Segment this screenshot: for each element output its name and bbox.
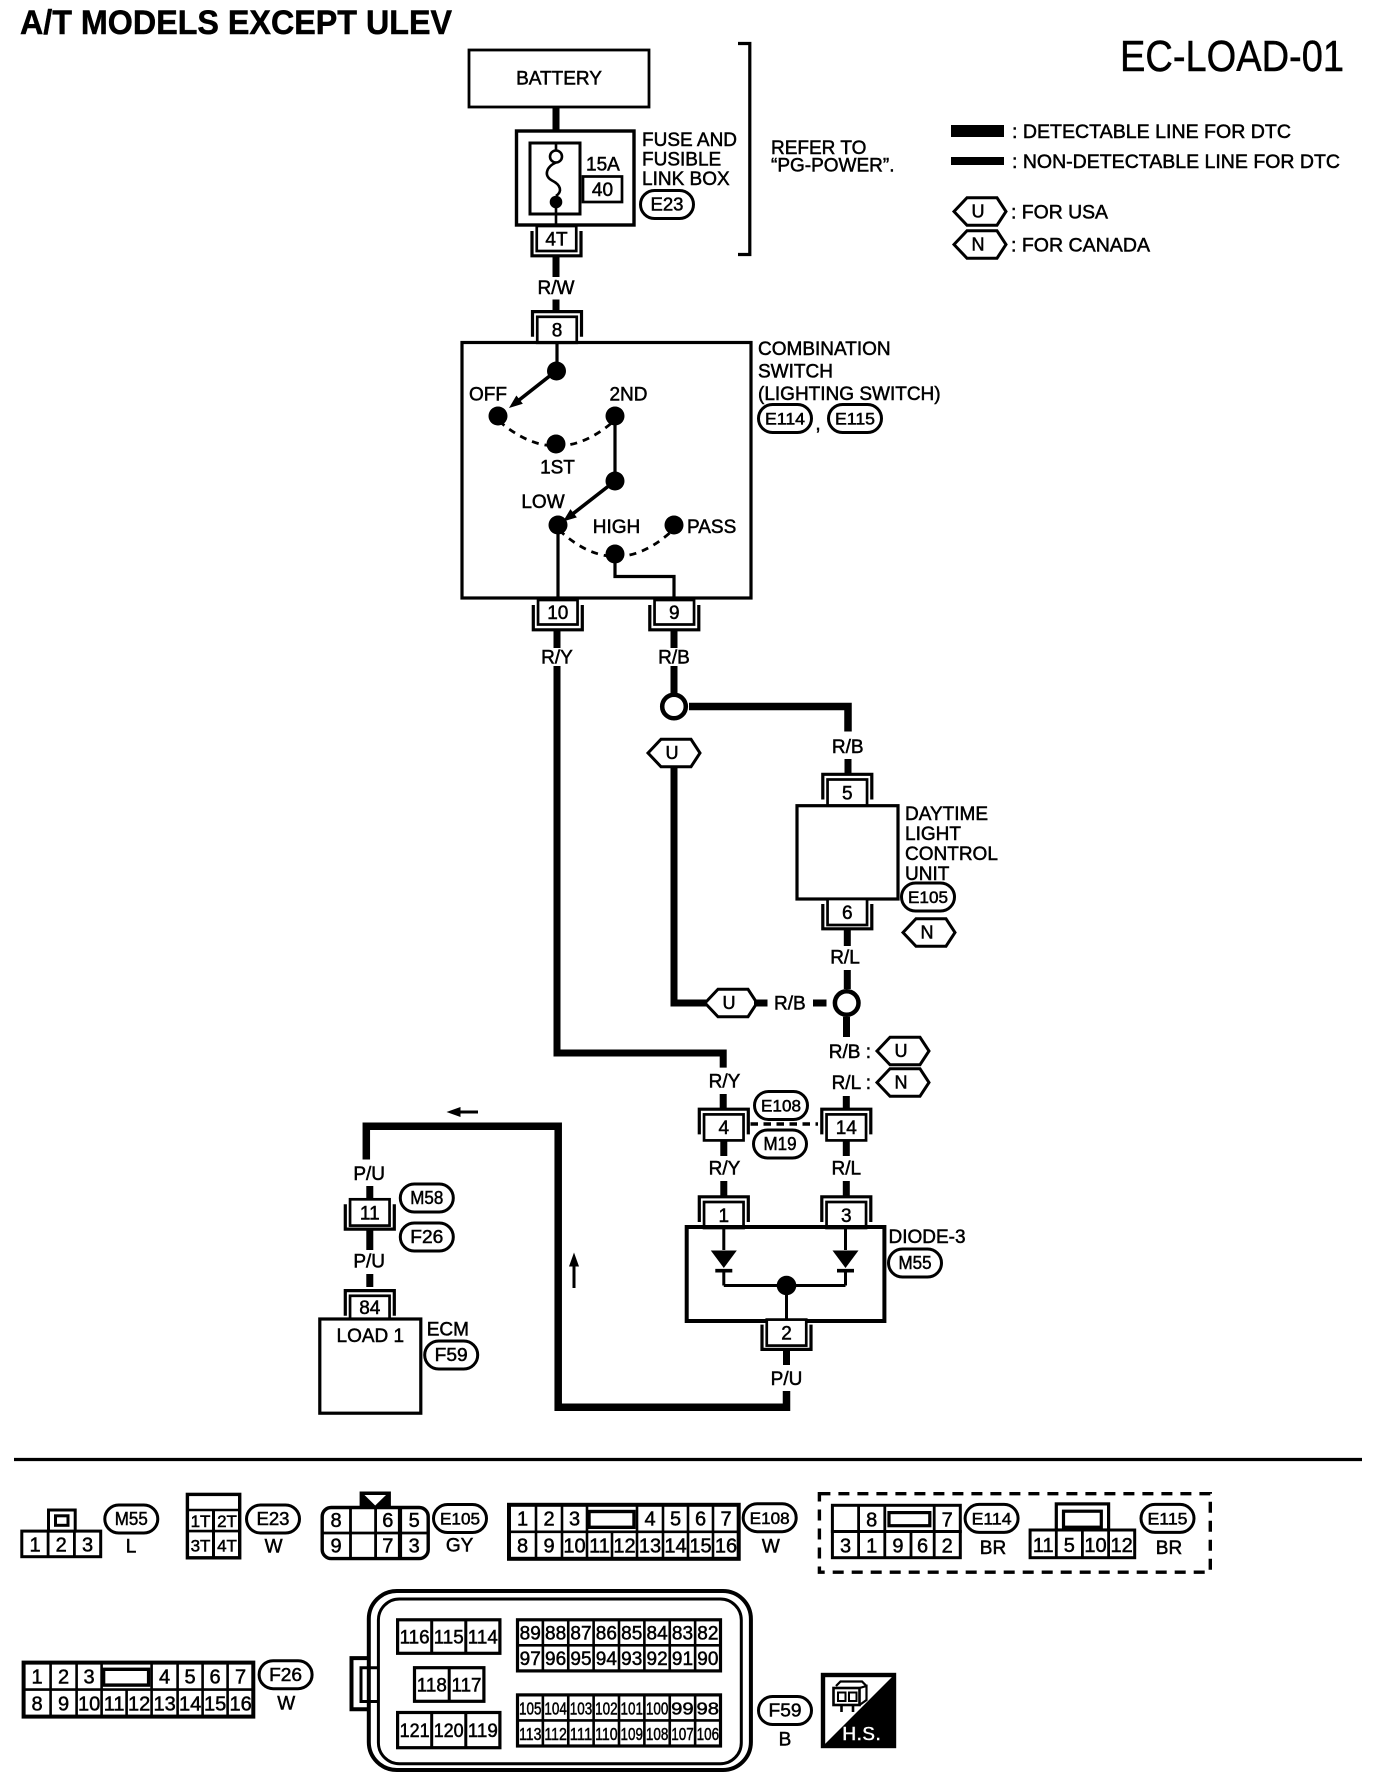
connector 14 — [822, 1109, 871, 1140]
connector face E114 — [832, 1505, 960, 1557]
legend USA hexagon U — [954, 198, 1006, 226]
legend for USA text — [1011, 203, 1108, 224]
svg-text:LOAD 1: LOAD 1 — [337, 1326, 405, 1347]
svg-text:8: 8 — [552, 321, 563, 342]
svg-text:10: 10 — [78, 1693, 100, 1715]
F59 pin group 105-98 113-106 — [518, 1695, 721, 1746]
F59 pin group 89-82 97-90 — [518, 1620, 721, 1671]
svg-text:88: 88 — [545, 1624, 566, 1645]
svg-text:10: 10 — [1084, 1535, 1106, 1557]
svg-text:4T: 4T — [545, 229, 568, 250]
Canada hexagon at daytime unit — [903, 919, 955, 947]
label PASS — [687, 517, 736, 538]
svg-text:106: 106 — [697, 1724, 720, 1744]
svg-text:110: 110 — [595, 1724, 618, 1744]
wire label R/Y below 10 — [541, 648, 573, 669]
wire P/U into connector 84 — [366, 1274, 373, 1287]
refer-to bracket — [738, 44, 750, 255]
combination switch label text — [758, 339, 941, 405]
svg-text:SWITCH: SWITCH — [758, 362, 833, 383]
connector face E108 — [509, 1505, 739, 1559]
switch position HIGH dot — [606, 545, 625, 564]
svg-text:FUSIBLE: FUSIBLE — [642, 150, 721, 171]
svg-text:HIGH: HIGH — [593, 517, 641, 538]
svg-text:113: 113 — [519, 1724, 542, 1744]
wire label R/B below 9 — [658, 648, 690, 669]
wire R/Y stub below 4 — [720, 1140, 727, 1156]
svg-text:E23: E23 — [651, 195, 684, 215]
wire R/B stub below 9 — [671, 629, 678, 648]
svg-text:9: 9 — [669, 603, 680, 624]
svg-text:4: 4 — [644, 1509, 655, 1531]
dashed travel arc LOW-HIGH-PASS — [559, 530, 673, 557]
svg-text:83: 83 — [672, 1624, 693, 1645]
wire junction to daytime unit — [689, 707, 848, 732]
svg-text:LIGHT: LIGHT — [905, 824, 961, 845]
fusible link symbol 15A fuse 40 — [530, 143, 580, 225]
Canada hexagon qualifier — [877, 1069, 929, 1097]
svg-text:E108: E108 — [750, 1510, 790, 1528]
svg-text:DIODE-3: DIODE-3 — [889, 1227, 966, 1248]
connector face M55 — [22, 1510, 101, 1557]
connector 8 — [533, 312, 582, 343]
label R/L for Canada — [832, 1073, 871, 1094]
svg-text:9: 9 — [892, 1536, 903, 1558]
svg-text:,: , — [815, 414, 820, 435]
svg-text:6: 6 — [842, 903, 853, 924]
svg-text:91: 91 — [672, 1649, 693, 1670]
svg-text:R/L: R/L — [830, 948, 860, 969]
switch position OFF dot — [489, 407, 508, 426]
wire R/W lower segment — [553, 300, 560, 313]
switch position PASS dot — [665, 516, 684, 535]
svg-text:100: 100 — [646, 1699, 669, 1719]
svg-text:R/Y: R/Y — [709, 1159, 741, 1180]
connector ref M19 oval — [754, 1130, 807, 1158]
wire R/Y run to E108 pin4 — [557, 666, 723, 1068]
fuse box label text — [642, 130, 737, 190]
connector ref E108 oval face — [743, 1504, 796, 1532]
svg-text:7: 7 — [942, 1510, 953, 1532]
wire R/Y into connector 4 — [720, 1094, 727, 1109]
svg-text:96: 96 — [545, 1649, 566, 1670]
svg-text:109: 109 — [620, 1724, 643, 1744]
F59 pin group 116 115 114 — [398, 1620, 500, 1654]
svg-text:2: 2 — [781, 1323, 792, 1344]
fuse number box 40 — [583, 177, 622, 203]
flow arrow up — [569, 1253, 579, 1289]
svg-text:14: 14 — [836, 1118, 858, 1139]
svg-text:6: 6 — [917, 1536, 928, 1558]
svg-text:BR: BR — [1156, 1538, 1182, 1559]
svg-text:R/B :: R/B : — [829, 1042, 871, 1063]
page id EC-LOAD-01 — [1120, 32, 1344, 81]
svg-text:BR: BR — [980, 1538, 1006, 1559]
svg-text:16: 16 — [715, 1536, 737, 1558]
svg-text:A/T MODELS EXCEPT ULEV: A/T MODELS EXCEPT ULEV — [20, 4, 452, 42]
svg-text:U: U — [895, 1041, 908, 1061]
svg-text:101: 101 — [620, 1699, 643, 1719]
connector ref F59 oval face — [759, 1697, 812, 1725]
wire label R/L below 6 — [830, 948, 860, 969]
wire U hex down to splice 2 — [674, 767, 706, 1003]
svg-text:1ST: 1ST — [540, 458, 575, 479]
svg-text:3: 3 — [409, 1536, 420, 1558]
svg-text:11: 11 — [104, 1693, 125, 1715]
svg-text:F59: F59 — [769, 1701, 802, 1721]
svg-text:84: 84 — [647, 1624, 669, 1645]
svg-text:FUSE AND: FUSE AND — [642, 130, 737, 151]
svg-text:PASS: PASS — [687, 517, 736, 538]
connector ref M58 oval — [400, 1184, 453, 1212]
svg-text:4: 4 — [719, 1118, 730, 1139]
svg-text:R/B: R/B — [774, 994, 806, 1015]
connector 6 — [823, 899, 872, 929]
connector face E105 — [322, 1493, 428, 1559]
svg-text:12: 12 — [613, 1536, 635, 1558]
svg-text:86: 86 — [596, 1624, 617, 1645]
svg-text:4T: 4T — [217, 1537, 237, 1556]
connector ref E105 oval face — [434, 1505, 487, 1533]
svg-text:93: 93 — [621, 1649, 642, 1670]
connector ref E105 oval — [902, 883, 955, 911]
wire R/L stub below 6 — [844, 930, 851, 947]
svg-text:E108: E108 — [761, 1098, 801, 1116]
svg-text:6: 6 — [382, 1510, 393, 1532]
svg-text:10: 10 — [563, 1536, 585, 1558]
svg-text:2: 2 — [543, 1509, 554, 1531]
label R/B for USA — [829, 1042, 871, 1063]
svg-text:R/W: R/W — [538, 278, 575, 299]
svg-text:E114: E114 — [765, 411, 805, 429]
wire HIGH to pin9 — [615, 554, 674, 598]
svg-text:3: 3 — [840, 1536, 851, 1558]
diode D2 right — [833, 1228, 859, 1286]
dashed travel arc OFF-1ST-2ND — [499, 421, 614, 446]
connector ref F26 oval face — [259, 1661, 312, 1689]
svg-text:COMBINATION: COMBINATION — [758, 339, 891, 360]
svg-text:N: N — [895, 1073, 908, 1093]
svg-text:7: 7 — [235, 1666, 246, 1688]
wire R/W upper segment — [553, 256, 560, 277]
svg-text:98: 98 — [697, 1699, 720, 1719]
svg-text:112: 112 — [544, 1724, 567, 1744]
legend non-detectable line text — [1012, 152, 1340, 173]
switch position LOW dot — [549, 516, 568, 535]
svg-text:M55: M55 — [899, 1253, 932, 1273]
svg-text:U: U — [723, 993, 736, 1013]
svg-text:M19: M19 — [764, 1134, 797, 1154]
svg-text:“PG-POWER”.: “PG-POWER”. — [771, 156, 895, 177]
svg-text:14: 14 — [179, 1693, 201, 1715]
wire R/L stub below 14 — [843, 1141, 850, 1156]
svg-text:OFF: OFF — [469, 385, 507, 406]
connector 4 — [699, 1109, 748, 1140]
connector 3 — [822, 1197, 871, 1228]
wire junction to pin 2 — [785, 1286, 788, 1321]
legend detectable line text — [1012, 122, 1291, 143]
connector 2 — [762, 1320, 811, 1350]
F59 pin group 121 120 119 — [398, 1713, 500, 1748]
svg-text:F59: F59 — [435, 1345, 468, 1365]
svg-text:B: B — [779, 1730, 792, 1751]
svg-text:1: 1 — [29, 1534, 40, 1556]
svg-text:5: 5 — [1064, 1535, 1075, 1557]
color code W E23 — [265, 1537, 283, 1558]
connector 10 — [533, 600, 582, 630]
switch wiper arrow to OFF — [509, 371, 556, 408]
svg-text:P/U: P/U — [353, 1252, 385, 1273]
wire into connector 14 — [843, 1096, 850, 1109]
wire hexagon to R/B label — [754, 1000, 768, 1007]
svg-text:F26: F26 — [269, 1665, 302, 1685]
svg-text:L: L — [126, 1537, 137, 1558]
svg-text:U: U — [972, 202, 985, 222]
svg-text:12: 12 — [128, 1693, 150, 1715]
switch mid node dot — [606, 472, 625, 491]
svg-text:119: 119 — [468, 1721, 498, 1742]
F59 pin group 118 117 — [415, 1668, 484, 1702]
diode-3 box M55 — [687, 1227, 885, 1321]
svg-text:121: 121 — [400, 1721, 430, 1742]
svg-text:120: 120 — [434, 1721, 464, 1742]
wire diode common rail — [724, 1284, 846, 1287]
dashed harness jumper E108-M19 — [751, 1122, 819, 1125]
svg-text:: DETECTABLE LINE FOR DTC: : DETECTABLE LINE FOR DTC — [1012, 122, 1291, 143]
svg-text:16: 16 — [229, 1693, 251, 1715]
svg-text:N: N — [921, 923, 934, 943]
svg-text:104: 104 — [544, 1699, 567, 1719]
svg-text:2ND: 2ND — [609, 385, 647, 406]
svg-text:9: 9 — [543, 1536, 554, 1558]
svg-text:15A: 15A — [586, 155, 620, 176]
wire R/Y into diode pin 1 — [720, 1181, 727, 1197]
connector 9 — [650, 600, 699, 630]
svg-text:114: 114 — [468, 1628, 498, 1649]
svg-text:102: 102 — [595, 1699, 618, 1719]
svg-text:DAYTIME: DAYTIME — [905, 804, 988, 825]
svg-text:111: 111 — [570, 1724, 593, 1744]
label 2ND — [609, 385, 647, 406]
flow arrow left — [447, 1107, 479, 1117]
svg-text:ECM: ECM — [427, 1320, 469, 1341]
svg-text:E105: E105 — [908, 889, 948, 907]
wire P/U stub below 2 — [783, 1349, 790, 1365]
svg-text:7: 7 — [382, 1536, 393, 1558]
switch position 1ST dot — [547, 435, 566, 454]
svg-text:3: 3 — [841, 1206, 852, 1227]
diode common junction dot — [777, 1276, 797, 1296]
legend for Canada text — [1011, 236, 1150, 257]
color code B F59 — [779, 1730, 792, 1751]
fuse and fusible link box E23 — [517, 131, 635, 225]
connector ref E115 oval face — [1141, 1504, 1194, 1532]
wire R/B to junction — [671, 666, 678, 693]
color code BR E114 — [980, 1538, 1006, 1559]
svg-text:7: 7 — [720, 1509, 731, 1531]
connector ref E115 oval — [829, 405, 882, 433]
H.S. mark connector pictogram — [834, 1682, 867, 1713]
svg-text:11: 11 — [589, 1536, 610, 1558]
svg-text:105: 105 — [519, 1699, 542, 1719]
svg-text:8: 8 — [330, 1510, 341, 1532]
label ECM — [427, 1320, 469, 1341]
svg-text:13: 13 — [639, 1536, 661, 1558]
svg-text:118: 118 — [417, 1675, 447, 1696]
connector 5 — [823, 774, 872, 805]
svg-text:U: U — [666, 743, 679, 763]
label 1ST — [540, 458, 575, 479]
svg-text:E23: E23 — [257, 1509, 290, 1529]
svg-text:108: 108 — [646, 1724, 669, 1744]
combination switch box E114 E115 — [462, 343, 751, 599]
svg-text:1: 1 — [719, 1206, 730, 1227]
svg-text:(LIGHTING SWITCH): (LIGHTING SWITCH) — [758, 384, 941, 405]
USA hexagon below junction 1 — [648, 739, 700, 767]
svg-text:5: 5 — [670, 1509, 681, 1531]
svg-text:P/U: P/U — [771, 1369, 803, 1390]
junction circle splice 1 — [662, 695, 686, 719]
connector face E115 — [1030, 1504, 1135, 1558]
svg-text:R/B: R/B — [658, 648, 690, 669]
svg-text:CONTROL: CONTROL — [905, 844, 998, 865]
color code L — [126, 1537, 137, 1558]
svg-text:1: 1 — [866, 1536, 877, 1558]
svg-text:5: 5 — [185, 1666, 196, 1688]
svg-text:115: 115 — [434, 1628, 464, 1649]
connector ref F59 oval — [425, 1341, 478, 1369]
svg-text:95: 95 — [570, 1649, 591, 1670]
connector ref E114 oval — [759, 405, 812, 433]
svg-text:2: 2 — [56, 1534, 67, 1556]
svg-text:85: 85 — [621, 1624, 642, 1645]
daytime light control unit label — [905, 804, 998, 885]
svg-text:10: 10 — [547, 603, 568, 624]
svg-text:11: 11 — [360, 1203, 380, 1224]
svg-text:40: 40 — [592, 180, 613, 201]
wire P/U stub below 11 — [366, 1230, 373, 1251]
label HIGH — [593, 517, 641, 538]
svg-text:8: 8 — [866, 1510, 877, 1532]
svg-text:8: 8 — [32, 1693, 43, 1715]
connector ref E23 oval face — [247, 1505, 300, 1533]
svg-text:5: 5 — [409, 1510, 420, 1532]
connector 1 — [699, 1197, 748, 1228]
wire label R/B at splice 2 — [774, 994, 806, 1015]
wire R/Y stub below 10 — [554, 629, 561, 648]
diode D1 left — [711, 1228, 737, 1286]
wire label R/Y below 4 — [709, 1159, 741, 1180]
svg-text:84: 84 — [359, 1298, 381, 1319]
svg-text:P/U: P/U — [353, 1164, 385, 1185]
legend CANADA hexagon N — [954, 231, 1006, 259]
svg-text:8: 8 — [517, 1536, 528, 1558]
svg-text:107: 107 — [671, 1724, 694, 1744]
connector face E23 — [187, 1494, 239, 1557]
wire below splice 2 — [843, 1017, 850, 1037]
svg-text:3T: 3T — [191, 1537, 211, 1556]
ECM box LOAD 1 — [320, 1319, 421, 1413]
svg-text:3: 3 — [569, 1509, 580, 1531]
svg-text:116: 116 — [400, 1628, 430, 1649]
svg-text:R/Y: R/Y — [709, 1072, 741, 1093]
svg-text:R/B: R/B — [832, 737, 864, 758]
connector ref E108 oval — [755, 1092, 808, 1120]
svg-text:E115: E115 — [1148, 1511, 1188, 1529]
connector ref E23 oval — [641, 191, 694, 219]
connector 11 — [345, 1199, 394, 1229]
wire label P/U above connector 84 — [353, 1252, 385, 1273]
svg-text:: NON-DETECTABLE LINE FOR DTC: : NON-DETECTABLE LINE FOR DTC — [1012, 152, 1340, 173]
ECM connector face F59 outline — [352, 1591, 751, 1770]
svg-text:9: 9 — [330, 1536, 341, 1558]
svg-text:R/L :: R/L : — [832, 1073, 871, 1094]
color code W E108 — [762, 1537, 780, 1558]
svg-text:W: W — [265, 1537, 283, 1558]
H.S. data link mark — [823, 1675, 894, 1746]
color code BR E115 — [1156, 1538, 1182, 1559]
svg-text:E115: E115 — [835, 411, 875, 429]
svg-text:92: 92 — [647, 1649, 668, 1670]
svg-text:EC-LOAD-01: EC-LOAD-01 — [1120, 32, 1344, 81]
wire stub into splice 2 — [813, 1000, 827, 1007]
svg-text:LOW: LOW — [521, 492, 564, 513]
svg-text:R/Y: R/Y — [541, 648, 573, 669]
connector ref M55 oval face — [105, 1505, 158, 1533]
wire pin8 to common node — [555, 343, 558, 371]
connector face F26 — [24, 1663, 254, 1717]
svg-text:12: 12 — [1110, 1535, 1132, 1557]
color code W F26 — [277, 1694, 295, 1715]
page title — [20, 4, 452, 42]
wire label P/U above connector 11 — [353, 1164, 385, 1185]
svg-text:117: 117 — [452, 1675, 482, 1696]
junction circle splice 2 — [835, 991, 859, 1015]
connector ref E114 oval face — [965, 1504, 1018, 1532]
svg-text:2: 2 — [58, 1666, 69, 1688]
switch common node dot — [547, 362, 566, 381]
svg-text:13: 13 — [153, 1693, 175, 1715]
connector 84 — [345, 1291, 394, 1320]
svg-text:6: 6 — [210, 1666, 221, 1688]
svg-text:1: 1 — [517, 1509, 528, 1531]
label LOW — [521, 492, 564, 513]
svg-text:H.S.: H.S. — [842, 1724, 881, 1746]
svg-text:LINK BOX: LINK BOX — [642, 169, 730, 190]
wire label P/U below 2 — [771, 1369, 803, 1390]
svg-text:W: W — [762, 1537, 780, 1558]
svg-text:3: 3 — [84, 1666, 95, 1688]
wire 2ND to mid node — [613, 416, 616, 481]
svg-text:: FOR CANADA: : FOR CANADA — [1011, 236, 1150, 257]
connector ref M55 oval — [889, 1249, 942, 1277]
svg-text:BATTERY: BATTERY — [516, 69, 602, 90]
svg-text:M58: M58 — [410, 1188, 443, 1208]
svg-text:82: 82 — [697, 1624, 718, 1645]
label OFF — [469, 385, 507, 406]
USA hexagon qualifier — [877, 1037, 929, 1065]
svg-text:89: 89 — [520, 1624, 541, 1645]
svg-text:2: 2 — [942, 1536, 953, 1558]
wire R/B into pin 5 — [845, 759, 852, 774]
connector ref F26 oval — [400, 1223, 453, 1251]
switch position 2ND dot — [606, 407, 625, 426]
svg-text:5: 5 — [842, 783, 853, 804]
refer to PG-POWER note — [771, 138, 895, 177]
svg-text:9: 9 — [58, 1693, 69, 1715]
wire label R/Y above connector 4 — [709, 1072, 741, 1093]
svg-text:3: 3 — [82, 1534, 93, 1556]
